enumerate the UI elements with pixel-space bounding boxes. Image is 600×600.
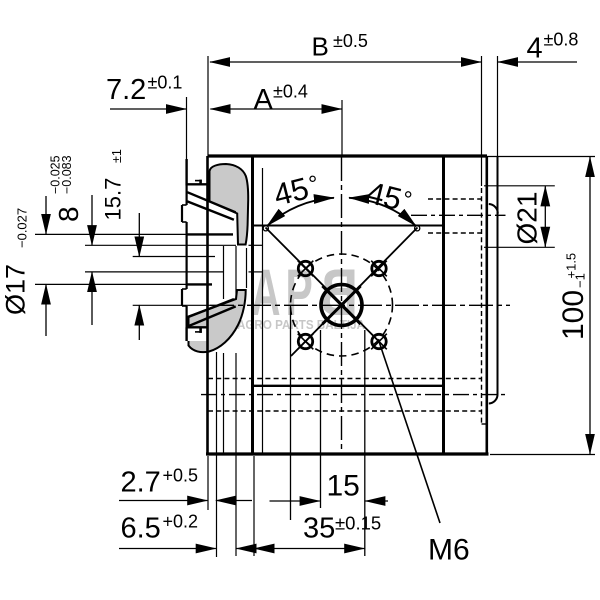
svg-text:−0.083: −0.083 bbox=[60, 155, 74, 194]
svg-text:6.5: 6.5 bbox=[121, 513, 161, 545]
svg-text:±0.4: ±0.4 bbox=[273, 82, 308, 102]
svg-text:+0.2: +0.2 bbox=[163, 512, 199, 532]
svg-text:B: B bbox=[312, 32, 329, 62]
svg-text:±0.5: ±0.5 bbox=[333, 31, 368, 51]
svg-text:A: A bbox=[254, 84, 274, 116]
svg-text:M6: M6 bbox=[428, 534, 470, 567]
svg-text:±0.1: ±0.1 bbox=[148, 73, 183, 93]
svg-text:−1: −1 bbox=[573, 273, 588, 288]
svg-text:−0.027: −0.027 bbox=[15, 208, 30, 248]
svg-text:Ø17: Ø17 bbox=[1, 264, 31, 315]
svg-text:Ø21: Ø21 bbox=[512, 192, 543, 245]
svg-text:+0.5: +0.5 bbox=[163, 466, 199, 486]
svg-text:2.7: 2.7 bbox=[121, 467, 161, 499]
svg-text:15: 15 bbox=[327, 470, 360, 503]
svg-text:4: 4 bbox=[527, 33, 543, 65]
svg-text:±1: ±1 bbox=[110, 149, 124, 163]
svg-text:35: 35 bbox=[303, 513, 335, 545]
svg-text:100: 100 bbox=[557, 290, 590, 340]
svg-text:7.2: 7.2 bbox=[106, 74, 146, 106]
svg-text:±0.15: ±0.15 bbox=[335, 513, 381, 534]
svg-text:15.7: 15.7 bbox=[101, 178, 126, 221]
svg-text:8: 8 bbox=[53, 206, 84, 222]
svg-text:±0.8: ±0.8 bbox=[544, 29, 579, 49]
